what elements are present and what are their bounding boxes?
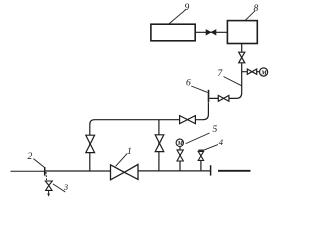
svg-text:8: 8 xyxy=(254,4,259,14)
svg-text:9: 9 xyxy=(185,3,190,13)
svg-text:2: 2 xyxy=(28,152,33,162)
svg-text:4: 4 xyxy=(219,137,224,147)
svg-text:6: 6 xyxy=(186,79,191,89)
svg-text:1: 1 xyxy=(127,147,132,157)
svg-text:3: 3 xyxy=(63,183,68,192)
svg-text:5: 5 xyxy=(213,125,218,135)
svg-text:M: M xyxy=(177,141,184,147)
svg-text:M: M xyxy=(260,70,267,77)
